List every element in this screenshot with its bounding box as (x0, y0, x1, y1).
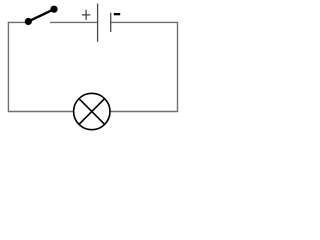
wire switch-to-battery segment (50, 21, 98, 23)
switch lever dot right (50, 6, 57, 13)
wire top-right segment (111, 21, 178, 23)
wire bottom-right segment (110, 111, 177, 113)
lamp X diagonal 1 (79, 99, 105, 125)
wire right vertical (177, 22, 179, 112)
wire top-left segment (8, 21, 26, 23)
label - (negative) (114, 13, 120, 15)
switch contact dot left (25, 18, 32, 25)
battery negative plate (short) (110, 13, 112, 32)
switch lever (28, 9, 54, 21)
wire bottom-left segment (8, 111, 73, 113)
lamp X diagonal 2 (79, 99, 105, 125)
lamp L1 circle (74, 93, 110, 129)
wire left vertical (7, 22, 9, 112)
battery positive plate (long) (97, 4, 99, 42)
label + (positive) (82, 10, 90, 20)
